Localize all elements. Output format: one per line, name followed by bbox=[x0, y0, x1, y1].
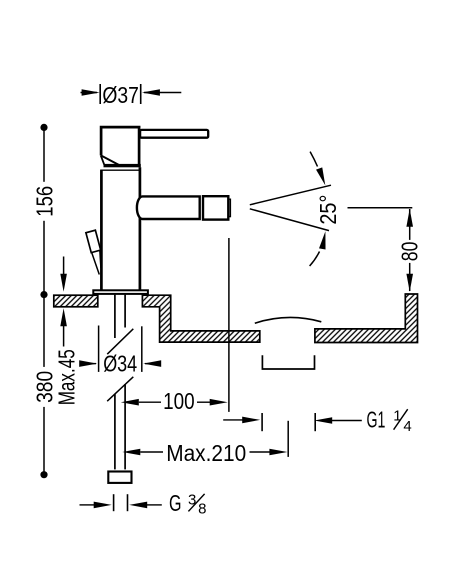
svg-text:100: 100 bbox=[163, 388, 195, 414]
svg-text:8: 8 bbox=[198, 501, 206, 518]
svg-text:Max.210: Max.210 bbox=[166, 440, 246, 466]
svg-text:156: 156 bbox=[32, 186, 58, 217]
svg-text:Ø34: Ø34 bbox=[103, 350, 137, 376]
svg-text:Max.45: Max.45 bbox=[54, 349, 80, 405]
svg-text:25°: 25° bbox=[315, 195, 341, 225]
svg-text:G1: G1 bbox=[367, 406, 386, 432]
svg-text:80: 80 bbox=[397, 242, 423, 262]
svg-text:Ø37: Ø37 bbox=[102, 82, 139, 108]
svg-text:1: 1 bbox=[393, 408, 401, 425]
svg-text:G: G bbox=[169, 490, 182, 516]
svg-text:4: 4 bbox=[403, 418, 411, 435]
svg-text:3: 3 bbox=[188, 491, 196, 508]
